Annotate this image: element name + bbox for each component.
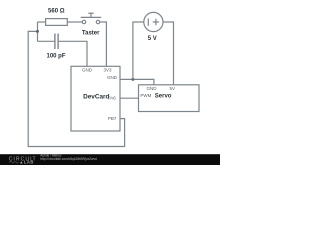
- wire resistor to switch: [67, 21, 82, 23]
- svg-text:GND: GND: [82, 68, 93, 73]
- node junction dot at V1 negative rail: [131, 78, 134, 81]
- wire PA6 to PWM: [120, 97, 139, 99]
- CircuitLab logo: [9, 157, 37, 165]
- op-amp U1 DevCard box: [71, 66, 120, 131]
- pin GND top of DevCard: [82, 68, 93, 73]
- svg-text:GND: GND: [107, 75, 118, 80]
- wire resistor left: [38, 21, 46, 23]
- wire V1 left terminal down: [133, 22, 144, 79]
- wire capacitor left: [38, 40, 55, 42]
- pin 3V3 top of DevCard: [103, 68, 112, 73]
- resistor R1 560 Ohm: [46, 9, 68, 26]
- wire left rail from junction down, along bottom, up to PB7: [28, 31, 124, 146]
- svg-text:3V3: 3V3: [103, 68, 112, 73]
- op-amp U2 Servo box: [139, 85, 200, 112]
- svg-text:PWM: PWM: [140, 93, 151, 98]
- voltage source V1 5V: [144, 12, 163, 42]
- svg-text:Taster: Taster: [82, 31, 100, 37]
- svg-text:PB7: PB7: [108, 116, 117, 121]
- svg-text:DevCard: DevCard: [83, 93, 109, 100]
- node junction dot left: [36, 30, 39, 33]
- svg-text:▲LAB: ▲LAB: [19, 160, 34, 165]
- svg-text:5V: 5V: [170, 86, 176, 91]
- svg-text:http://circuitlab.com/c8q42869: http://circuitlab.com/c8q42869/9jux2wvd: [40, 157, 97, 161]
- svg-text:PA6: PA6: [108, 95, 117, 100]
- watermark author text: [40, 154, 97, 162]
- capacitor C1 100 pF: [46, 34, 65, 60]
- wire DevCard GND to rail and servo GND: [120, 79, 154, 84]
- svg-text:100 pF: 100 pF: [46, 54, 65, 60]
- pin 5V top of Servo: [170, 86, 176, 91]
- wire capacitor to GND pin: [59, 41, 87, 66]
- pin GND top of Servo: [147, 86, 158, 91]
- svg-text:5 V: 5 V: [148, 36, 157, 42]
- svg-text:GND: GND: [147, 86, 158, 91]
- wire switch to 3V3 pin: [100, 22, 107, 66]
- svg-text:560 Ω: 560 Ω: [48, 9, 65, 15]
- svg-text:Servo: Servo: [155, 93, 172, 99]
- watermark bar: [0, 154, 220, 165]
- pin PB7 right of DevCard: [108, 116, 117, 121]
- pin PWM left of Servo: [140, 93, 151, 98]
- switch SW1 Taster (pushbutton): [81, 13, 102, 36]
- pin PA6 right of DevCard: [108, 95, 117, 100]
- wire junction vertical between resistor and capacitor branch: [37, 22, 39, 41]
- pin GND right of DevCard: [107, 75, 118, 80]
- wire V1 positive terminal to Servo 5V: [163, 22, 174, 85]
